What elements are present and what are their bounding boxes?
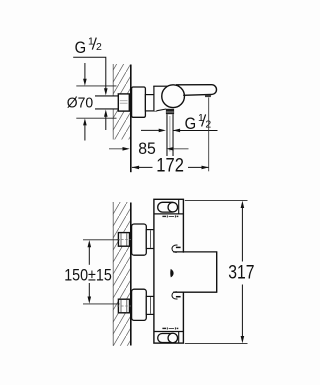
arrow down to pipe top	[104, 88, 108, 95]
arrow up to pipe bottom	[104, 110, 108, 117]
dimension Ø70 arrows	[84, 63, 86, 80]
thermostat body (plan view)	[154, 199, 184, 343]
upper union hex nut	[118, 233, 129, 247]
wall face line (side view)	[130, 65, 132, 173]
svg-text:Ø70: Ø70	[67, 94, 93, 111]
lower wall rosette	[132, 289, 147, 320]
bottom handle grip (pill)	[158, 334, 177, 343]
temperature scale ticks (top)	[162, 215, 178, 217]
escutcheon (wall rosette, side view)	[132, 87, 146, 117]
leader line under outlet G1/2 with arrows at pipe	[173, 130, 217, 132]
leader line for top G1/2	[73, 57, 106, 89]
svg-text:317: 317	[228, 263, 254, 284]
wall face line (plan view)	[130, 203, 132, 346]
top handle grip (pill)	[158, 202, 177, 212]
body underside taper to outlet	[156, 109, 166, 111]
svg-text:150±15: 150±15	[64, 265, 112, 284]
wall left edge line (side view)	[112, 64, 114, 140]
dimension 172	[132, 166, 153, 168]
svg-text:2: 2	[96, 41, 102, 53]
bottom handle button circle	[168, 333, 178, 343]
upper union step	[146, 230, 154, 249]
wall hatch band (plan view)	[113, 202, 130, 346]
dimension 85	[109, 148, 123, 150]
bottom handle box separation	[154, 331, 183, 333]
extension line at lever tip	[208, 98, 210, 172]
cartridge dome circle	[162, 85, 185, 108]
hex nut on supply pipe	[118, 94, 129, 111]
spout root fillet (bottom)	[172, 292, 178, 299]
supply pipe nipple through wall	[95, 96, 119, 110]
lever handle (side view)	[176, 85, 217, 96]
top handle box separation	[154, 213, 183, 215]
mixer body block (side view)	[154, 86, 177, 111]
top handle button circle	[168, 202, 178, 212]
temperature scale ticks (bottom)	[162, 327, 178, 329]
svg-text:85: 85	[138, 139, 156, 158]
dimension Ø70 extension lines	[76, 85, 116, 87]
svg-text:G: G	[75, 38, 87, 57]
outlet collar nut	[166, 109, 174, 114]
upper wall rosette	[132, 224, 147, 255]
dimension 150±15 arrows	[88, 240, 92, 247]
wall hatch band (side view)	[113, 64, 130, 140]
shower outlet pipe	[166, 114, 167, 156]
mousseur tab under lever end	[205, 95, 211, 97]
lower union step	[146, 296, 154, 314]
dimension 150±15 extension lines	[83, 239, 120, 241]
outlet hole mark on body	[170, 269, 173, 278]
dimension 317 line and arrows	[241, 201, 245, 208]
connection neck	[145, 95, 156, 111]
spout root fillet (top)	[172, 245, 178, 252]
svg-text:172: 172	[156, 156, 184, 177]
spout block protruding right	[181, 253, 216, 292]
lower union hex nut	[118, 299, 129, 313]
dimension 317 extension lines	[185, 200, 248, 202]
wall left edge line (plan view)	[112, 202, 114, 346]
